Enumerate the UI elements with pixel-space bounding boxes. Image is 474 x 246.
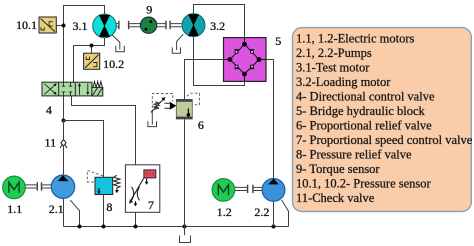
arrow below solenoid bbox=[146, 179, 148, 182]
wire: sensor 10.1 to node A bbox=[56, 25, 63, 27]
check glyph top-left bbox=[234, 50, 238, 54]
shaft motor 1.2 to coupling bbox=[235, 187, 247, 190]
directional control valve 4 body bbox=[42, 82, 92, 96]
arrow inside bbox=[98, 188, 100, 192]
svg-text:10.1, 10.2- Pressure sensor: 10.1, 10.2- Pressure sensor bbox=[296, 177, 432, 191]
coupling bars left bbox=[119, 21, 129, 30]
wire: valve 6 outlet down to rail bbox=[184, 119, 186, 227]
valve body bbox=[95, 177, 113, 194]
wire: loop from node A up over to motor 3.1 top bbox=[64, 6, 105, 26]
tank symbol below motor 3.1 bbox=[116, 46, 125, 52]
junction dot: valve 8 on rail bbox=[102, 225, 106, 229]
wire: valve 4 port P down to junction C bbox=[63, 96, 65, 121]
node dots bbox=[242, 42, 247, 47]
tank symbol valve 6 bbox=[148, 121, 157, 126]
proportional speed control valve 7 box bbox=[125, 165, 159, 213]
valve body block bbox=[176, 99, 192, 119]
svg-text:2.1: 2.1 bbox=[49, 202, 64, 216]
shaft motor 3.1 to coupling bbox=[116, 24, 118, 27]
coupling bars 1.1/2.1 bbox=[37, 182, 41, 190]
motor 3.2 drain diagonal bbox=[177, 34, 184, 50]
diamond edges bbox=[230, 44, 259, 74]
svg-text:11: 11 bbox=[45, 136, 57, 150]
pressure sensor 10.1 bbox=[39, 17, 56, 33]
svg-text:6: 6 bbox=[198, 118, 204, 132]
svg-text:1.1: 1.1 bbox=[7, 202, 22, 216]
svg-text:2.2: 2.2 bbox=[254, 205, 269, 219]
wire: valve 4 port T right and down through valve 7 to rail bbox=[72, 96, 136, 227]
svg-text:5- Bridge hydraulic block: 5- Bridge hydraulic block bbox=[296, 104, 426, 118]
proportional relief valve 6 bbox=[148, 93, 200, 126]
coupling bars 1.2/2.2 bbox=[248, 185, 253, 193]
svg-text:3.2: 3.2 bbox=[210, 19, 225, 33]
svg-text:1.2: 1.2 bbox=[217, 205, 232, 219]
crossed arrows left envelope bbox=[45, 84, 57, 95]
motor 3.1 drain diagonal bbox=[111, 34, 120, 49]
spring bbox=[154, 102, 159, 110]
valve 4 spring bbox=[93, 82, 102, 88]
wire: motor 3.2 bottom down, right, up into bridge bottom node bbox=[194, 37, 245, 86]
check glyph top-right bbox=[251, 50, 255, 54]
svg-text:7: 7 bbox=[148, 198, 154, 212]
electric motor 1.1 bbox=[3, 176, 26, 199]
check glyph bottom-right bbox=[251, 65, 255, 69]
node C junction dot bbox=[62, 119, 66, 123]
shaft sensor 9 to coupling bbox=[156, 24, 165, 27]
bridge hydraulic block 5 bbox=[224, 38, 267, 82]
svg-text:11-Check valve: 11-Check valve bbox=[296, 191, 375, 205]
svg-text:9: 9 bbox=[146, 3, 152, 17]
loading motor 3.2 bbox=[182, 14, 205, 37]
shaft coupling to motor 3.2 bbox=[171, 24, 182, 27]
node B junction dot bbox=[90, 44, 94, 48]
diagonal arrow bbox=[131, 178, 144, 200]
spring right bbox=[114, 175, 120, 188]
junction dot: valve 7 on rail bbox=[134, 225, 138, 229]
arrow below spring bbox=[116, 188, 118, 190]
legend text bbox=[296, 32, 473, 206]
wire: motor 3.1 bottom to valve 4 port B bbox=[74, 38, 105, 82]
svg-text:5: 5 bbox=[275, 34, 281, 48]
wire: bottom tank rail bbox=[64, 226, 289, 228]
pump 2.1 bbox=[51, 175, 74, 198]
tank symbol below motor 3.2 bbox=[172, 47, 180, 53]
shaft motor 1.1 to coupling bbox=[25, 185, 36, 188]
pressure sensor 10.2 bbox=[84, 53, 100, 69]
check valve 11 bbox=[60, 140, 67, 148]
svg-text:10.1: 10.1 bbox=[16, 18, 37, 32]
svg-text:4: 4 bbox=[46, 103, 52, 117]
svg-text:8: 8 bbox=[106, 200, 112, 214]
wire: bridge left node left then down through valve 6 bbox=[185, 60, 231, 100]
wire: pump 2.2 outlet up to bridge right node bbox=[259, 60, 274, 179]
closed centre stubs bbox=[62, 82, 72, 86]
svg-text:9- Torque sensor: 9- Torque sensor bbox=[296, 162, 380, 176]
wire: pump 2.2 suction from rail bbox=[273, 201, 275, 226]
legend box bbox=[293, 28, 472, 212]
svg-text:3.1: 3.1 bbox=[73, 19, 88, 33]
svg-text:8- Pressure relief valve: 8- Pressure relief valve bbox=[296, 148, 412, 162]
tank stem bbox=[151, 113, 153, 125]
svg-text:3.1-Test motor: 3.1-Test motor bbox=[296, 61, 370, 75]
torque sensor 9 bbox=[140, 17, 156, 33]
electric motor 1.2 bbox=[212, 179, 235, 202]
wire: rail tank stem bbox=[184, 227, 186, 236]
wire: relief valve 8 outlet down to tank rail bbox=[103, 195, 105, 227]
wire: loop from motor 3.2 top over to bridge top node bbox=[194, 5, 245, 45]
coupling bars right bbox=[166, 21, 170, 30]
pump 2.2 bbox=[262, 179, 285, 202]
wire: node A down to valve 4 port A bbox=[63, 25, 65, 82]
wire: rail left end up to pump 2.1 suction bbox=[63, 198, 65, 226]
svg-text:6- Proportional relief valve: 6- Proportional relief valve bbox=[296, 119, 432, 133]
wire: pump 2.2 case drain diagonal to rail right end bbox=[282, 200, 289, 227]
pressure relief valve 8 bbox=[87, 170, 120, 194]
svg-text:4- Directional control valve: 4- Directional control valve bbox=[296, 90, 435, 104]
tank symbol at rail bbox=[180, 236, 191, 243]
svg-text:1.1, 1.2-Electric motors: 1.1, 1.2-Electric motors bbox=[296, 32, 415, 46]
test motor 3.1 bbox=[93, 14, 117, 38]
dashed pilot left box bbox=[152, 94, 173, 113]
wire: junction C through check valve 11 to pump 2.1 outlet bbox=[63, 121, 65, 176]
junction dot: drain 2.1 on rail bbox=[78, 225, 82, 229]
parallel arrows right envelope bbox=[80, 83, 88, 94]
arrow inside block bbox=[187, 109, 189, 114]
arrow through spring bbox=[151, 99, 164, 113]
svg-text:10.2: 10.2 bbox=[103, 57, 124, 71]
shaft coupling to pump 2.2 bbox=[254, 187, 262, 190]
wire: pump 2.1 case drain diagonal to rail bbox=[70, 200, 79, 226]
solenoid red box bbox=[144, 170, 156, 178]
svg-text:2.1, 2.2-Pumps: 2.1, 2.2-Pumps bbox=[296, 46, 372, 60]
shaft coupling to pump 2.1 bbox=[42, 185, 51, 188]
wire: branch down to sensor 10.2 bbox=[91, 46, 93, 54]
valve 4 solenoid box bbox=[92, 87, 103, 96]
junction dot: valve 6 on rail bbox=[183, 225, 187, 229]
svg-text:7- Proportional speed control: 7- Proportional speed control valve bbox=[296, 133, 473, 147]
solenoid triangle bbox=[170, 102, 177, 110]
dashed pilot bbox=[87, 170, 103, 182]
junction dot: pump 2.2 suction on rail bbox=[272, 225, 276, 229]
node A junction dot bbox=[62, 24, 66, 28]
svg-text:3.2-Loading motor: 3.2-Loading motor bbox=[296, 75, 391, 89]
throttle arcs bbox=[132, 187, 134, 201]
shaft coupling to sensor 9 bbox=[129, 24, 140, 27]
wire: pilot branch from junction C to relief valve 8 bbox=[64, 121, 104, 178]
solenoid fork lines bbox=[165, 103, 171, 108]
check glyph bottom-left bbox=[234, 65, 238, 69]
dashed pilot right loop bbox=[187, 93, 200, 105]
node stubs inside block bbox=[224, 38, 267, 82]
flow arrow on line bbox=[135, 201, 137, 203]
